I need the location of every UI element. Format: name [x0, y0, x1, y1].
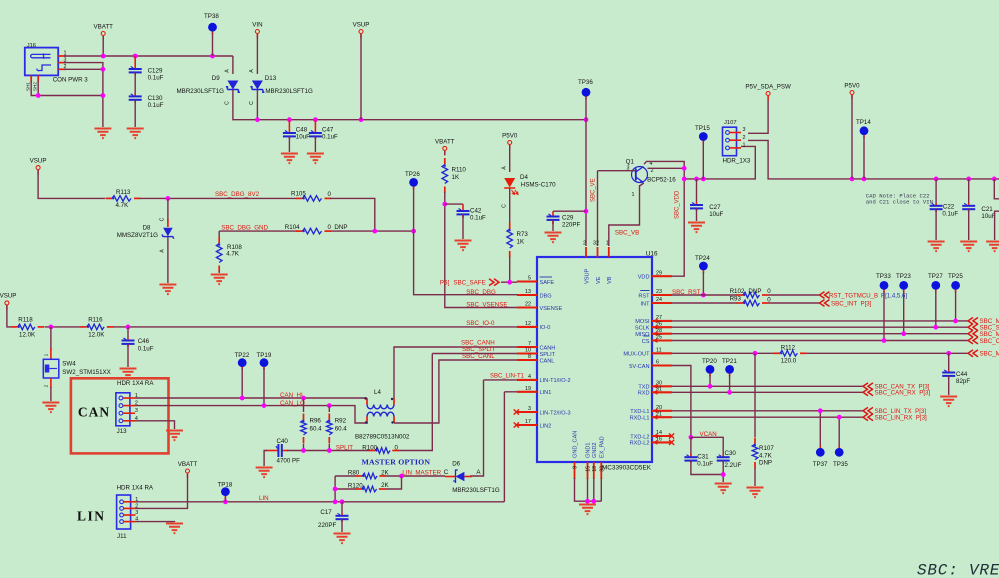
svg-text:MISO: MISO [635, 332, 650, 338]
svg-text:23: 23 [656, 289, 662, 295]
wire SBC_DBG_GND line [219, 230, 413, 232]
svg-text:L4: L4 [374, 389, 381, 396]
off-page chevron SBC_LIN_TX [863, 407, 873, 414]
wire R107 to ground [754, 468, 756, 486]
svg-text:MMSZ8V2T1G: MMSZ8V2T1G [117, 232, 158, 239]
ground J11 [166, 524, 183, 534]
svg-text:33: 33 [599, 466, 605, 472]
svg-text:D8: D8 [143, 225, 151, 232]
ground J13 [166, 431, 183, 441]
svg-text:TP18: TP18 [218, 482, 233, 489]
svg-text:SBC_CAN_RX P[3]: SBC_CAN_RX P[3] [875, 390, 931, 397]
test point TP20 [709, 369, 711, 376]
node R120 left junction [333, 487, 338, 492]
ground C21 [960, 242, 977, 252]
svg-text:GND2: GND2 [592, 442, 598, 458]
svg-text:INT: INT [640, 301, 650, 307]
svg-text:4.7K: 4.7K [759, 452, 773, 459]
node VCAN junction [689, 435, 694, 440]
test point TP19 [263, 363, 265, 370]
svg-text:B82789C0513N002: B82789C0513N002 [355, 434, 410, 441]
svg-text:60.4: 60.4 [335, 426, 348, 433]
node DBG net junctions [372, 229, 377, 234]
svg-text:LIN_MASTER: LIN_MASTER [402, 469, 441, 476]
svg-text:10uF: 10uF [709, 211, 723, 218]
transistor Q1 BCP52-16 [632, 167, 648, 183]
svg-text:CAN_LO: CAN_LO [280, 400, 305, 407]
svg-text:0.1uF: 0.1uF [697, 461, 713, 468]
svg-text:R116: R116 [88, 317, 103, 324]
svg-text:SBC_SPLIT: SBC_SPLIT [462, 346, 496, 353]
svg-text:R93: R93 [730, 296, 742, 303]
svg-text:SBC_SAFE: SBC_SAFE [453, 280, 485, 287]
power flag VSUP (left) [37, 169, 39, 174]
svg-text:R102: R102 [730, 288, 745, 295]
svg-text:SBC: VRE: SBC: VRE [917, 562, 999, 578]
svg-text:3: 3 [135, 408, 138, 414]
svg-text:C48: C48 [296, 127, 308, 134]
test point TP24 [702, 266, 704, 273]
svg-text:C44: C44 [956, 371, 968, 378]
capacitor C44 82pF [948, 370, 950, 373]
svg-text:D13: D13 [265, 75, 277, 82]
test point TP26 [413, 182, 415, 189]
svg-text:HDR 1X4 RA: HDR 1X4 RA [117, 485, 154, 492]
svg-text:VE: VE [596, 276, 602, 284]
svg-text:0.1uF: 0.1uF [148, 102, 164, 109]
node J16 ground junctions [101, 67, 106, 72]
svg-text:U16: U16 [646, 250, 658, 257]
wire R108 to ground [218, 271, 220, 273]
wire TP22 to CAN_HI [241, 368, 243, 398]
wire SPLIT line [287, 450, 370, 452]
wire TP38 to rail [212, 33, 214, 56]
svg-text:10uF: 10uF [981, 213, 995, 220]
svg-text:P5V0: P5V0 [502, 133, 518, 140]
ground VCAN [715, 484, 732, 494]
svg-text:C31: C31 [697, 454, 709, 461]
power flag VBATT (top left) [102, 35, 104, 40]
resistor R104 0 DNP [296, 230, 303, 232]
svg-text:1K: 1K [452, 174, 460, 181]
svg-text:HDR 1X4 RA: HDR 1X4 RA [117, 380, 154, 387]
svg-text:SBC_VDD: SBC_VDD [675, 190, 681, 219]
svg-text:VIN: VIN [252, 22, 262, 29]
ground U16 [579, 505, 596, 515]
wire R80 to LIN_MASTER node [386, 475, 446, 477]
ground C48 [281, 154, 298, 164]
wire rail down to D9 anode [232, 56, 234, 74]
svg-text:5V-CAN: 5V-CAN [629, 364, 649, 370]
svg-text:SBC_INT P[3]: SBC_INT P[3] [831, 301, 872, 308]
resistor R113 4.7K [106, 197, 113, 199]
svg-text:A: A [501, 166, 507, 170]
svg-text:2.2UF: 2.2UF [725, 462, 742, 469]
svg-text:TP35: TP35 [833, 461, 848, 468]
svg-text:SW4: SW4 [62, 360, 76, 367]
svg-text:3: 3 [743, 127, 746, 133]
svg-text:C40: C40 [277, 438, 289, 445]
wire L4 bottom winding right to CANL [394, 360, 517, 423]
U16 bottom pins GND_CAN GND1 GND2 EX_PAD [574, 462, 576, 479]
power flag VBATT (R110) [444, 150, 446, 155]
wire J107 pin2 down to rail B [748, 140, 999, 179]
svg-text:2: 2 [583, 241, 586, 247]
svg-text:32: 32 [593, 241, 599, 247]
wire SPLIT vertical [399, 354, 518, 451]
wire CS line [672, 340, 968, 342]
resistor R120 2K [355, 488, 362, 490]
power flag P5V0 (top right) [851, 94, 853, 99]
node C30 ground junction [721, 472, 726, 477]
wire LIN line [136, 501, 505, 503]
svg-text:RST: RST [638, 293, 650, 299]
wire C47 to ground [314, 136, 316, 152]
wire VBATT down to J11 pin2 [136, 474, 188, 509]
connector J16 CON PWR 3 [25, 48, 58, 76]
node C42 junction [442, 202, 447, 207]
svg-text:0.1uF: 0.1uF [138, 346, 154, 353]
svg-text:D9: D9 [212, 75, 220, 82]
svg-text:SBC_CS: SBC_CS [980, 338, 999, 345]
wire TP26 down to DBG pin [414, 188, 517, 295]
off-page chevrons SPI [968, 318, 978, 325]
svg-text:TP20: TP20 [702, 358, 717, 365]
wire TP27 to SCLK line [935, 291, 937, 327]
svg-text:GND1: GND1 [586, 442, 592, 458]
svg-text:C21: C21 [981, 206, 993, 213]
capacitor C40 4700 PF [266, 450, 278, 452]
wire VIN stub down to D13 [256, 34, 258, 74]
wire SCLK line [672, 326, 968, 328]
svg-text:TP24: TP24 [695, 255, 710, 262]
svg-text:RXD-L1: RXD-L1 [630, 416, 650, 422]
svg-text:0: 0 [395, 444, 399, 451]
ground C47 [307, 154, 324, 164]
ground C29 [545, 233, 562, 243]
wire Q1 collector pins 4,2 to VDD rail [644, 161, 684, 276]
node R96 junction top [301, 396, 306, 401]
svg-text:C29: C29 [562, 215, 574, 222]
wire TP20 to TXD line [709, 375, 711, 386]
ground D8 [159, 285, 176, 295]
U16 right pin stubs and names [652, 275, 672, 277]
U16 left pin stubs and names [517, 280, 537, 282]
svg-text:R110: R110 [452, 167, 467, 174]
test point TP33 [883, 285, 885, 292]
svg-text:TP21: TP21 [722, 358, 737, 365]
svg-text:SBC_MUX: SBC_MUX [980, 351, 999, 358]
power flag P5V_SDA_PSW [767, 95, 769, 100]
wire P5V0 down to rail B [851, 95, 853, 179]
svg-text:LIN1: LIN1 [540, 390, 552, 396]
wire MISO line [672, 333, 968, 335]
svg-text:60.4: 60.4 [310, 426, 323, 433]
svg-text:VSENSE: VSENSE [540, 306, 563, 312]
node LIN junctions [223, 499, 228, 504]
no-connect X TXD-L2 [669, 433, 674, 438]
node LIN_MASTER junction [399, 474, 404, 479]
test point TP14 [863, 131, 865, 138]
capacitor C48 10uF [288, 120, 290, 133]
svg-text:120.0: 120.0 [781, 357, 797, 364]
wire TXD line [672, 385, 863, 387]
test point TP38 [212, 27, 214, 34]
ground R107 [747, 488, 764, 498]
wire J16 ground return pins 2-3 [64, 63, 103, 127]
wire TP35 up to RXD-L1 [838, 417, 840, 446]
svg-text:1: 1 [606, 241, 609, 247]
ground off-page cap [986, 242, 999, 252]
wire TP23 to MISO line [903, 291, 905, 334]
svg-text:7: 7 [528, 341, 531, 347]
svg-text:CON PWR 3: CON PWR 3 [53, 76, 89, 83]
svg-text:CAN_HI: CAN_HI [280, 392, 303, 399]
svg-text:CANL: CANL [540, 358, 555, 364]
wire J13 pin4 to ground [135, 421, 175, 429]
svg-text:SBC_DBG_8V2: SBC_DBG_8V2 [215, 191, 260, 198]
no-connect X LIN2 [514, 422, 519, 427]
svg-text:J107: J107 [724, 120, 737, 126]
ground J16 [94, 129, 111, 139]
ground C40 [256, 468, 273, 478]
svg-text:R120: R120 [348, 483, 363, 490]
svg-text:VBATT: VBATT [435, 138, 455, 145]
U16 top pins VSUP VE VB [585, 247, 587, 257]
off-page chevron SBC_CAN_TX [863, 383, 873, 390]
svg-text:19: 19 [525, 386, 531, 392]
svg-text:0: 0 [328, 191, 332, 198]
svg-text:TP19: TP19 [257, 352, 272, 359]
wire R110 to C42 node and VSENSE [445, 192, 517, 308]
wire J13 pin1 CAN_HI line [135, 397, 367, 399]
resistor R112 120.0 [774, 352, 781, 354]
capacitor C30 2.2UF [722, 454, 724, 457]
svg-text:HSMS-C170: HSMS-C170 [521, 182, 556, 189]
wire TP15 down to rail A [702, 142, 704, 179]
wire J16 shield pins SH1 SH2 [31, 81, 103, 96]
svg-text:SBC_VE: SBC_VE [591, 178, 597, 202]
svg-text:VSUP: VSUP [0, 293, 16, 300]
node SPLIT junctions [301, 448, 306, 453]
capacitor C130 0.1uF [134, 93, 136, 96]
svg-text:R104: R104 [285, 224, 300, 231]
svg-text:R112: R112 [781, 345, 796, 352]
svg-text:and C21 close to VIN: and C21 close to VIN [866, 198, 933, 205]
wire R120 branch [335, 476, 401, 489]
test point TP36 [585, 92, 587, 99]
LED D4 HSMS-C170 red [504, 178, 515, 188]
svg-text:SPLIT: SPLIT [336, 444, 353, 451]
svg-text:VB: VB [607, 276, 613, 284]
svg-text:C42: C42 [470, 208, 482, 215]
svg-text:LIN-T1/I/O-2: LIN-T1/I/O-2 [540, 378, 571, 384]
resistor R110 1K [444, 158, 446, 165]
svg-text:0 DNP: 0 DNP [328, 224, 348, 231]
wire RST line [672, 294, 820, 296]
wire MUX-OUT line [672, 352, 968, 354]
wire P5V0 to D4 [509, 145, 511, 172]
svg-text:TXD-L2: TXD-L2 [630, 434, 649, 440]
svg-text:24: 24 [656, 297, 662, 303]
wire R80 left rail [335, 476, 356, 502]
wire TP36 down to chip VSUP pin [585, 98, 587, 246]
ground C42 [455, 241, 472, 251]
svg-text:SBC_IO-0: SBC_IO-0 [466, 320, 495, 327]
svg-text:C17: C17 [320, 509, 332, 516]
svg-text:SAFE: SAFE [540, 280, 555, 286]
resistor R93 0 [737, 302, 744, 304]
node C46 junction [126, 325, 131, 330]
off-page chevron SBC_LIN_RX [863, 414, 873, 421]
test point TP27 [935, 285, 937, 292]
svg-text:C130: C130 [148, 95, 163, 102]
svg-text:RXD: RXD [638, 391, 650, 397]
svg-text:IO-0: IO-0 [540, 325, 551, 331]
J16 pin stubs 1 3 2 [31, 56, 66, 82]
svg-text:CANH: CANH [540, 345, 556, 351]
wire C29 to ground [552, 220, 554, 231]
node SW4 junction [49, 325, 54, 330]
svg-text:CAN: CAN [78, 405, 110, 420]
svg-text:R118: R118 [18, 317, 33, 324]
capacitor C29 220PF [552, 211, 554, 216]
wire C129 to C130 [134, 72, 136, 96]
ground SW4 [42, 403, 59, 413]
svg-text:22: 22 [525, 302, 531, 308]
wire R118 to R116 [45, 326, 82, 328]
svg-text:C: C [160, 217, 166, 221]
capacitor C27 10uF [696, 179, 698, 202]
wire VSUP to R113 [38, 170, 105, 198]
svg-text:A: A [160, 249, 166, 253]
resistor R92 60.4 [328, 406, 330, 412]
svg-text:SH2: SH2 [32, 82, 37, 91]
svg-text:GND_CAN: GND_CAN [573, 431, 579, 458]
wire J13 pin2 CAN_LO line [135, 406, 368, 423]
no-connect X RXD-L2 [669, 440, 674, 445]
wire J107 pin3 up to P5V_SDA_PSW [748, 96, 768, 133]
svg-text:10: 10 [525, 348, 531, 354]
wire R105 to DBG node [330, 198, 375, 231]
svg-text:MC33903CD5EK: MC33903CD5EK [602, 465, 652, 472]
svg-text:VSUP: VSUP [584, 268, 590, 284]
svg-text:MOSI: MOSI [635, 319, 650, 325]
svg-text:MBR230LSFT1G: MBR230LSFT1G [177, 88, 225, 95]
svg-text:9: 9 [573, 466, 579, 469]
svg-text:EX_PAD: EX_PAD [600, 436, 606, 458]
test point TP23 [903, 285, 905, 292]
svg-text:R80: R80 [348, 469, 360, 476]
svg-text:TP22: TP22 [235, 352, 250, 359]
svg-text:12: 12 [525, 321, 531, 327]
node VBATT rail junctions [101, 54, 106, 59]
wire D4 cathode to R73 [509, 189, 511, 225]
svg-text:P5V0: P5V0 [844, 83, 860, 90]
svg-text:SBC_VSENSE: SBC_VSENSE [466, 302, 507, 309]
resistor R107 4.7K DNP [754, 353, 756, 437]
wire to C29 [553, 210, 586, 212]
wire SW4 to ground [50, 387, 52, 401]
svg-text:1: 1 [743, 143, 746, 149]
svg-text:SBC_LIN_RX P[3]: SBC_LIN_RX P[3] [875, 415, 928, 422]
svg-text:C30: C30 [725, 450, 737, 457]
op-amp U16 MC33903CD5EK body [537, 257, 652, 462]
ground C44 [940, 397, 957, 407]
svg-text:MBR230LSFT1G: MBR230LSFT1G [265, 88, 313, 95]
zener diode D8 MMSZ8V2T1G [167, 198, 169, 222]
wire C42 to ground [462, 214, 464, 239]
svg-text:2: 2 [743, 135, 746, 141]
wire D8 anode to ground [167, 237, 169, 283]
svg-text:SH1: SH1 [26, 82, 31, 91]
wire U16 ground bus [575, 478, 602, 503]
off-page chevron SBC_MUX [968, 350, 978, 357]
svg-text:MUX-OUT: MUX-OUT [623, 352, 650, 358]
wire TP37 up to TXD-L1 [819, 411, 821, 446]
wire TP24 down to RST line [702, 272, 704, 295]
svg-text:13: 13 [525, 289, 531, 295]
svg-text:220PF: 220PF [562, 222, 580, 229]
power flag P5V0 (D4) [509, 144, 511, 149]
capacitor C47 0.1uF [314, 120, 316, 133]
wire C40 to ground [264, 451, 267, 467]
svg-text:R113: R113 [116, 189, 131, 196]
svg-text:17: 17 [525, 419, 531, 425]
no-connect X LIN-T2 [514, 409, 519, 414]
svg-text:A: A [249, 69, 255, 73]
node rail A junctions [682, 177, 687, 182]
svg-text:R96: R96 [310, 418, 322, 425]
svg-text:VDD: VDD [638, 275, 650, 281]
node ground bus junctions [585, 499, 590, 504]
svg-text:0.1uF: 0.1uF [942, 211, 958, 218]
test point TP35 [838, 445, 840, 452]
capacitor C21 10uF [968, 179, 970, 203]
svg-text:29: 29 [656, 270, 662, 276]
node C44 junction [946, 351, 951, 356]
svg-text:C47: C47 [322, 127, 334, 134]
svg-text:SCLK: SCLK [635, 326, 650, 332]
svg-text:DNP: DNP [748, 288, 761, 295]
svg-text:Q1: Q1 [626, 159, 635, 166]
resistor R108 4.7K pulldown [218, 231, 220, 238]
wire TP14 down to rail B [863, 137, 865, 179]
wire INT line [672, 302, 820, 304]
svg-text:4: 4 [528, 374, 531, 380]
svg-text:1: 1 [44, 353, 50, 356]
wire TP18 to LIN line [224, 497, 226, 502]
svg-text:TP23: TP23 [896, 273, 911, 280]
wire VBATT to R110 [444, 151, 446, 155]
svg-text:C: C [225, 101, 231, 105]
power flag VBATT (J11) [187, 473, 189, 478]
capacitor C42 0.1uF [462, 204, 464, 211]
test point TP37 [819, 445, 821, 452]
wire Q1 emitter pin1 to VB [609, 183, 644, 247]
svg-text:HDR_1X3: HDR_1X3 [723, 158, 751, 165]
svg-text:2K: 2K [381, 469, 389, 476]
power flag VSUP (far left) [6, 305, 8, 310]
test point TP18 [224, 492, 226, 499]
resistor R100 0 [369, 450, 376, 452]
svg-text:TP36: TP36 [578, 79, 593, 86]
wire R113 to D8 node and on to R105 [140, 197, 297, 199]
svg-text:SBC_DBG_GND: SBC_DBG_GND [221, 224, 268, 231]
ground C27 [688, 223, 705, 233]
node R92 junction top [327, 403, 332, 408]
capacitor C22 0.1uF [935, 179, 937, 203]
